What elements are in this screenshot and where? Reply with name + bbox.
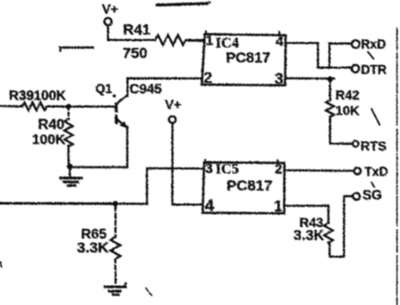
svg-text:3: 3 [275, 71, 284, 88]
svg-text:1: 1 [206, 32, 214, 48]
svg-text:3: 3 [205, 160, 213, 176]
svg-text:100K: 100K [32, 131, 65, 147]
svg-text:R42: R42 [336, 88, 360, 103]
svg-text:IC5: IC5 [216, 162, 239, 178]
svg-text:TxD: TxD [365, 165, 389, 179]
svg-text:SG: SG [363, 188, 383, 203]
svg-text:RTS: RTS [361, 139, 387, 154]
svg-text:10K: 10K [336, 103, 360, 118]
svg-text:1: 1 [274, 199, 283, 216]
svg-text:V+: V+ [102, 2, 119, 17]
svg-text:4: 4 [276, 33, 284, 49]
svg-text:R39100K: R39100K [9, 88, 66, 103]
svg-text:PC817: PC817 [227, 178, 273, 195]
svg-text:2: 2 [204, 70, 213, 87]
svg-text:PC817: PC817 [226, 51, 270, 67]
svg-text:R41: R41 [123, 22, 151, 39]
svg-text:4: 4 [205, 196, 215, 215]
svg-text:3.3K: 3.3K [77, 240, 109, 257]
svg-text:IC4: IC4 [216, 36, 239, 52]
svg-text:2: 2 [275, 162, 283, 177]
svg-text:Q1: Q1 [96, 82, 113, 96]
svg-text:V+: V+ [165, 97, 182, 112]
svg-text:RxD: RxD [361, 38, 386, 52]
svg-text:750: 750 [123, 45, 148, 62]
svg-text:3.3K: 3.3K [294, 228, 325, 244]
svg-text:DTR: DTR [361, 63, 387, 77]
svg-text:C945: C945 [130, 82, 163, 97]
